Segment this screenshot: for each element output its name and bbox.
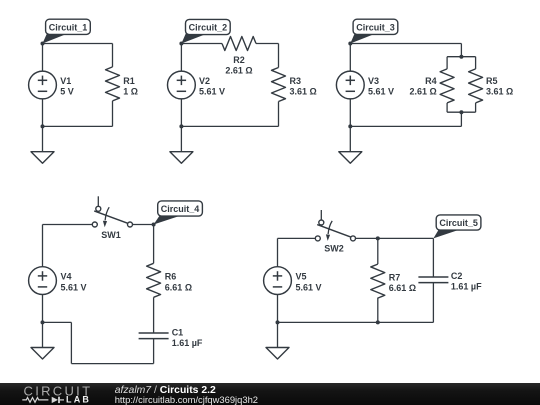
wire right rail upper [112, 44, 114, 67]
wire left rail upper c5 [277, 238, 279, 266]
wire left rail lower c3 [349, 99, 351, 127]
svg-text:R7: R7 [389, 272, 401, 282]
label R2 value [225, 55, 252, 76]
svg-text:5.61 V: 5.61 V [61, 282, 87, 292]
wire bottom [43, 125, 113, 127]
logo waveform [22, 397, 64, 403]
callout tail Circuit_4 [154, 214, 179, 224]
wire left rail upper c3 [349, 44, 351, 72]
wire left rail upper c4 [42, 225, 44, 267]
wire left rail upper c2 [180, 44, 182, 72]
wire R7 top c5 [377, 238, 379, 264]
voltage source V3 [336, 71, 364, 99]
wire left rail lower [42, 99, 44, 127]
callout tail Circuit_5 [433, 228, 458, 238]
callout tail Circuit_2 [181, 33, 204, 44]
node top-left c1 [41, 42, 45, 46]
svg-text:http://circuitlab.com/cjfqw369: http://circuitlab.com/cjfqw369jq3h2 [115, 394, 258, 405]
wire branch top horizontal [447, 56, 476, 58]
node R7 top c5 [376, 236, 380, 240]
callout box Circuit_4 [158, 201, 203, 216]
ground c1 [31, 126, 54, 163]
svg-text:2.61 Ω: 2.61 Ω [409, 87, 436, 97]
capacitor C2 [418, 277, 448, 283]
node bottom-left c3 [348, 124, 352, 128]
svg-text:5.61 V: 5.61 V [296, 282, 322, 292]
svg-text:C1: C1 [172, 327, 184, 337]
switch SW2 [315, 210, 355, 241]
svg-text:R2: R2 [233, 55, 245, 65]
svg-text:3.61 Ω: 3.61 Ω [486, 87, 513, 97]
wire switch to node c4 [133, 224, 154, 226]
label R6 value [165, 272, 192, 293]
wire branch bottom horizontal [447, 111, 476, 113]
svg-text:LAB: LAB [66, 395, 91, 405]
svg-text:R5: R5 [486, 76, 498, 86]
label C2 value [451, 271, 482, 292]
wire top-left corner to switch c5 [278, 237, 316, 239]
wire C1 bottom [153, 339, 155, 364]
svg-text:3.61 Ω: 3.61 Ω [290, 87, 317, 97]
wire bottom c2 [181, 125, 278, 127]
wire R4 lower stub [446, 103, 448, 112]
svg-text:1.61 µF: 1.61 µF [172, 338, 203, 348]
wire R6 to C1 [153, 297, 155, 333]
voltage source V1 [29, 71, 57, 99]
wire R5 upper stub [475, 57, 477, 69]
svg-text:Circuit_2: Circuit_2 [189, 23, 228, 33]
node bottom-left c4 [41, 320, 45, 324]
wire bottom c5 [278, 321, 434, 323]
svg-text:V5: V5 [296, 272, 307, 282]
callout box Circuit_5 [436, 215, 481, 230]
callout box Circuit_2 [186, 19, 231, 34]
resistor R2 [222, 37, 256, 51]
svg-text:V3: V3 [368, 76, 379, 86]
ground c3 [339, 126, 362, 163]
svg-text:C2: C2 [451, 271, 463, 281]
voltage source V2 [168, 71, 196, 99]
wire R6 top c4 [153, 225, 155, 264]
svg-text:6.61 Ω: 6.61 Ω [389, 283, 416, 293]
label R5 value [486, 76, 513, 97]
wire junction to bottom c3 [460, 112, 462, 126]
wire R5 lower stub [475, 103, 477, 112]
svg-text:2.61 Ω: 2.61 Ω [225, 66, 252, 76]
wire node to riser c4 [43, 321, 72, 323]
label V5 value [296, 272, 322, 293]
node bottom-left c1 [41, 124, 45, 128]
resistor R3 [272, 68, 286, 102]
svg-text:R3: R3 [290, 76, 302, 86]
voltage source V4 [29, 267, 57, 295]
label V2 value [199, 76, 225, 97]
wire right rail lower c2 [278, 102, 280, 127]
callout box Circuit_3 [353, 19, 398, 34]
svg-text:V4: V4 [61, 272, 72, 282]
svg-text:SW1: SW1 [101, 230, 121, 240]
svg-text:R6: R6 [165, 272, 177, 282]
wire top-left corner to switch c4 [43, 224, 93, 226]
svg-text:R1: R1 [123, 76, 135, 86]
switch SW1 [92, 196, 132, 227]
svg-text:SW2: SW2 [324, 244, 344, 254]
callout tail Circuit_3 [350, 33, 373, 44]
callout tail Circuit_1 [43, 33, 66, 44]
ground c5 [266, 322, 289, 359]
wire R4 upper stub [446, 57, 448, 69]
svg-text:Circuit_3: Circuit_3 [356, 22, 395, 32]
wire down to junction c3 [460, 44, 462, 57]
node bottom-left c5 [276, 320, 280, 324]
wire top-left (node to R2) [181, 43, 222, 45]
wire switch to C2 corner c5 [356, 237, 434, 239]
resistor R7 [371, 264, 385, 298]
voltage source V5 [264, 267, 292, 295]
node R7 bottom c5 [376, 320, 380, 324]
wire left rail lower c2 [180, 99, 182, 127]
wire riser down c4 [70, 322, 72, 363]
wire bottom c3 [350, 125, 461, 127]
label R7 value [389, 272, 416, 293]
wire right rail upper c2 [278, 44, 280, 68]
ground c2 [170, 126, 193, 163]
wire left rail upper [42, 44, 44, 72]
wire C2 bottom c5 [432, 283, 434, 323]
node switch-R6 c4 [152, 223, 156, 227]
node top-left c2 [179, 42, 183, 46]
svg-text:5 V: 5 V [60, 87, 74, 97]
node bottom-left c2 [179, 124, 183, 128]
resistor R1 [106, 67, 120, 101]
wire bottom c4 [71, 363, 153, 365]
wire top (node to R1 top) [43, 43, 113, 45]
ground c4 [31, 322, 54, 359]
label R3 value [290, 76, 317, 97]
resistor R5 [469, 69, 483, 103]
svg-text:5.61 V: 5.61 V [368, 87, 394, 97]
svg-text:R4: R4 [425, 76, 437, 86]
wire top-right (R2 to corner) [256, 43, 279, 45]
svg-text:V1: V1 [60, 76, 71, 86]
wire left rail lower c4 [42, 295, 44, 323]
svg-text:Circuit_5: Circuit_5 [439, 218, 478, 228]
label V4 value [61, 272, 87, 293]
label R4 value [409, 76, 436, 97]
wire top c3 [350, 43, 461, 45]
node junction top c3 [459, 55, 463, 59]
resistor R4 [440, 69, 454, 103]
capacitor C1 [139, 333, 169, 339]
wire right rail lower [112, 101, 114, 127]
node top-left c3 [348, 42, 352, 46]
label R1 value [123, 76, 138, 97]
resistor R6 [147, 263, 161, 297]
label V3 value [368, 76, 394, 97]
wire C2 top c5 [432, 238, 434, 277]
svg-text:Circuit_1: Circuit_1 [49, 22, 88, 32]
node junction bottom c3 [459, 110, 463, 114]
wire left rail lower c5 [277, 295, 279, 323]
svg-text:V2: V2 [199, 76, 210, 86]
svg-text:Circuit_4: Circuit_4 [161, 204, 200, 214]
svg-text:6.61 Ω: 6.61 Ω [165, 282, 192, 292]
label V1 value [60, 76, 74, 97]
footer background bar [0, 383, 540, 405]
svg-text:1.61 µF: 1.61 µF [451, 281, 482, 291]
svg-text:5.61 V: 5.61 V [199, 87, 225, 97]
wire R7 bottom c5 [377, 298, 379, 323]
callout box Circuit_1 [46, 19, 91, 34]
label C1 value [172, 327, 203, 348]
svg-text:1 Ω: 1 Ω [123, 87, 138, 97]
